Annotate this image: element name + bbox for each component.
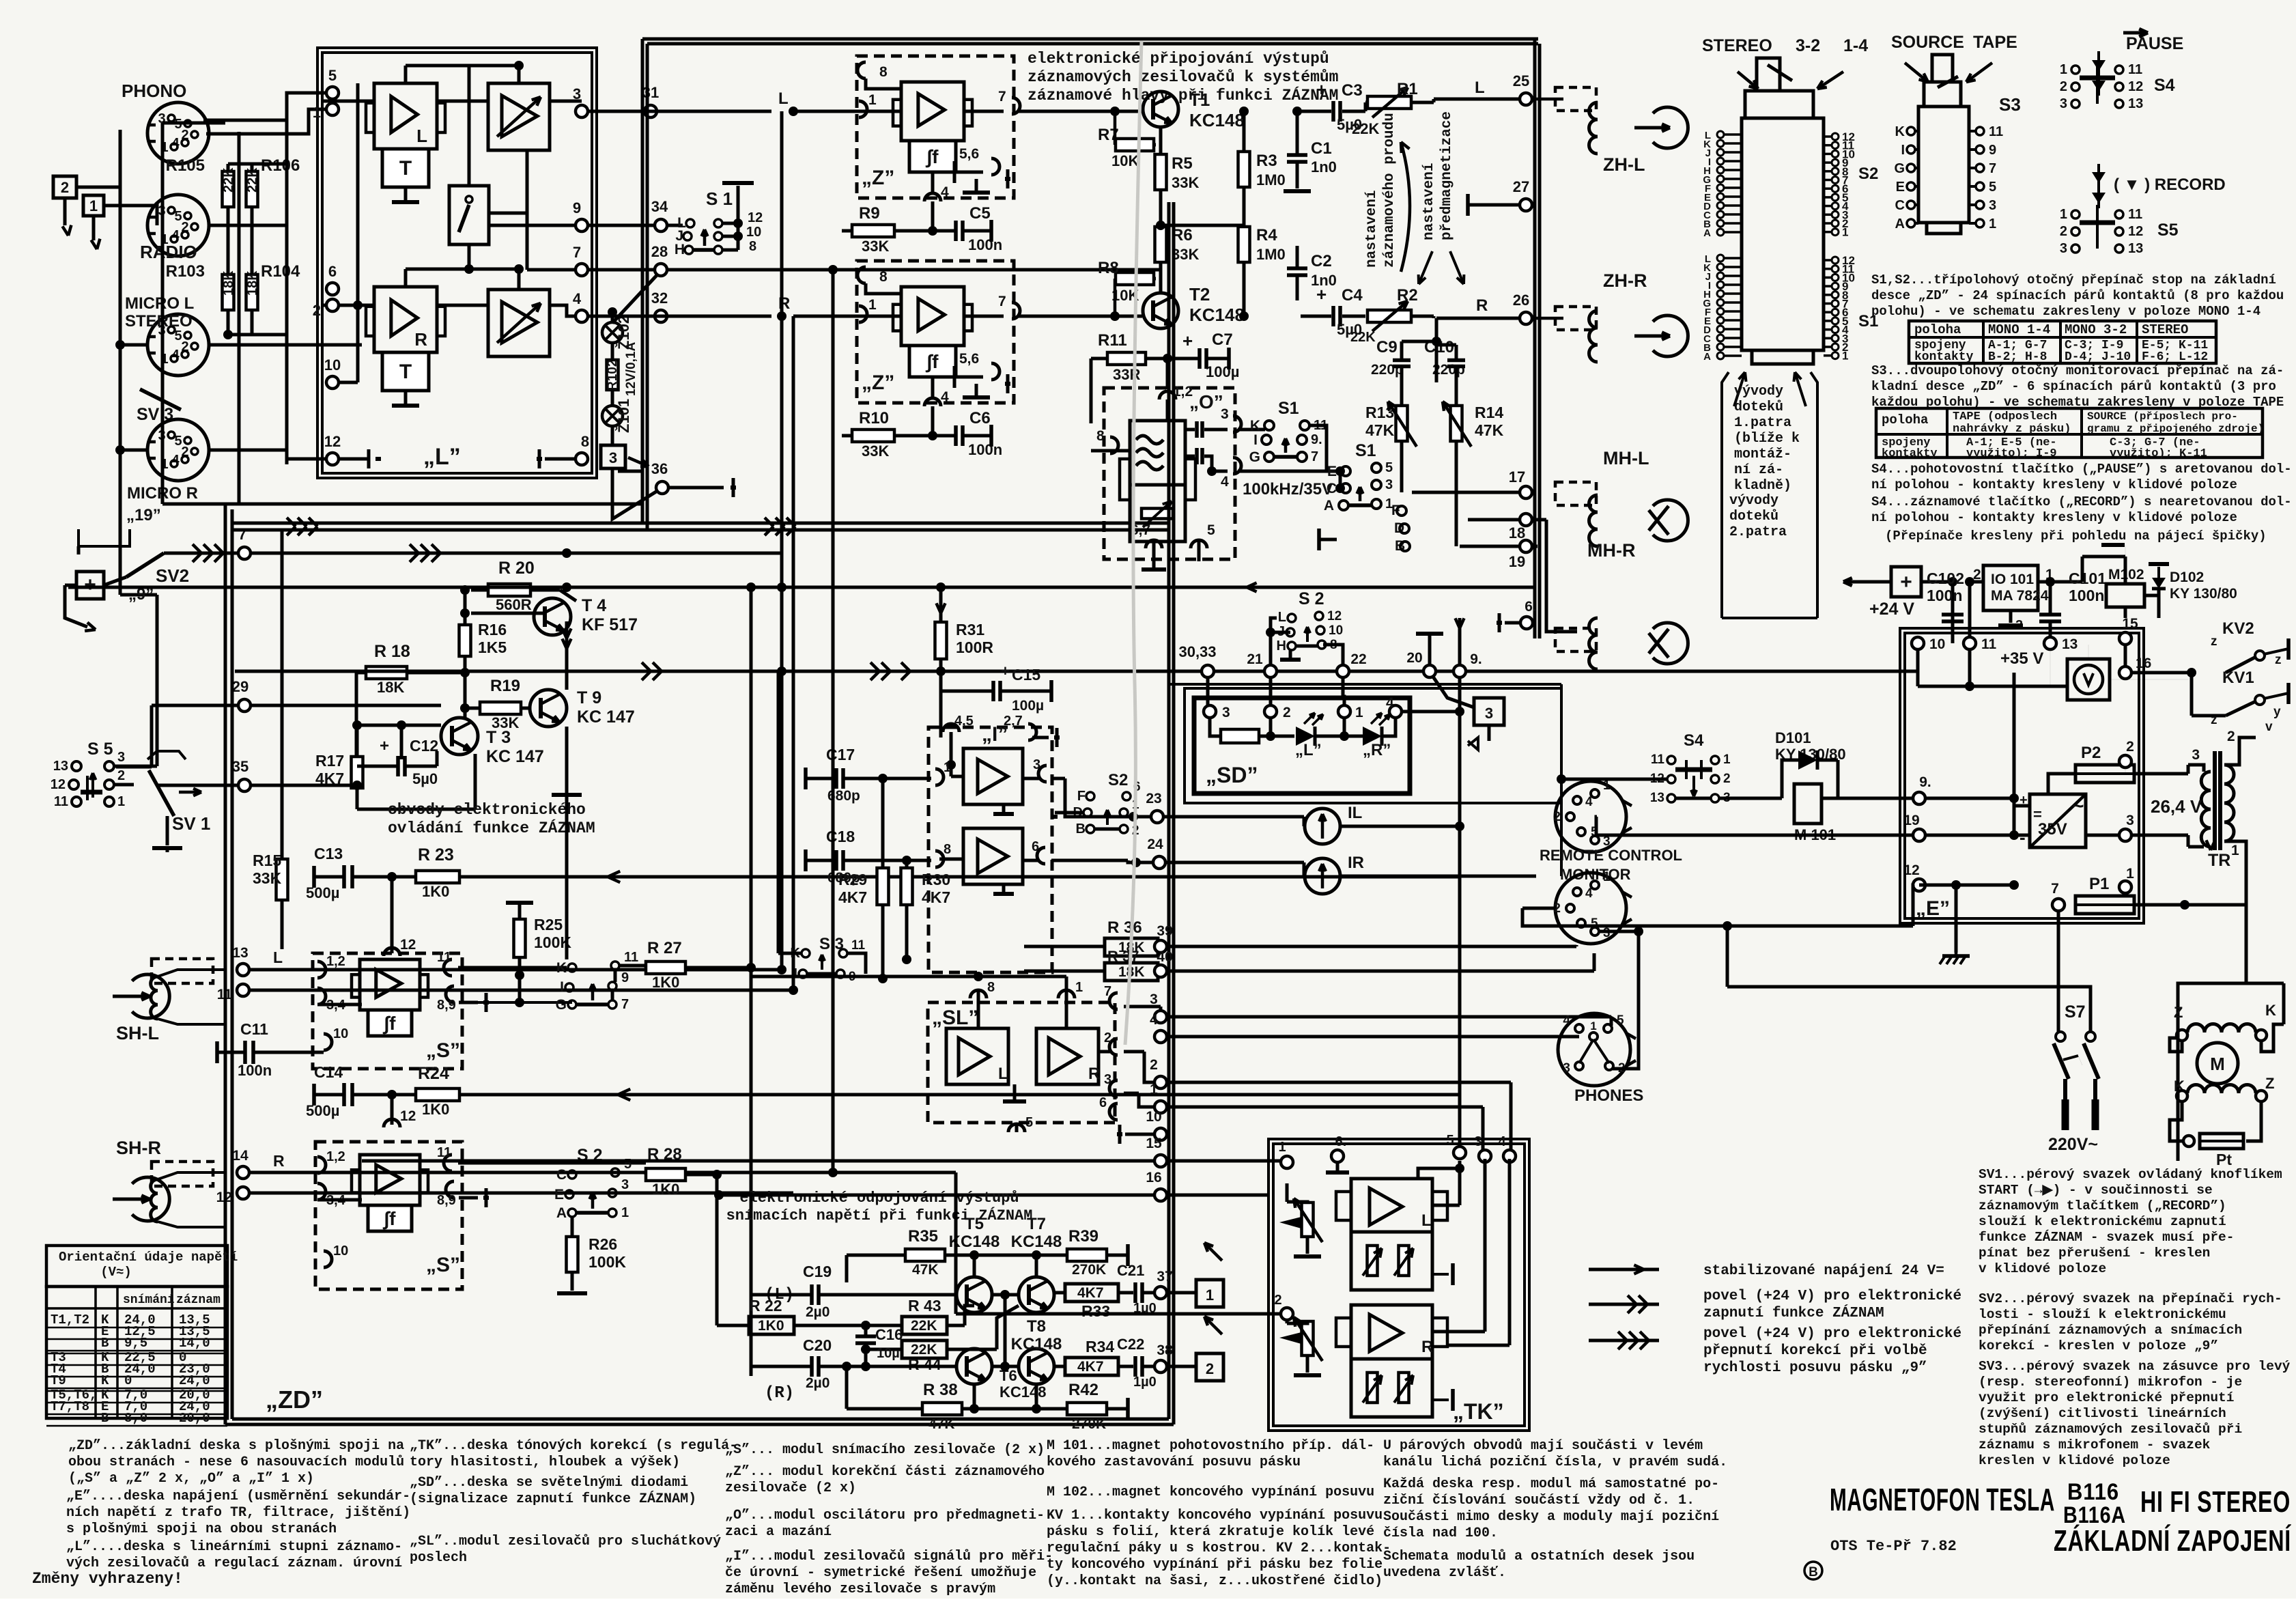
ZD board left edge	[224, 504, 227, 1424]
wire TR primary to S7 area	[2245, 905, 2248, 983]
svg-text:ní polohou - kontakty kresleny: ní polohou - kontakty kresleny v klidové…	[1871, 477, 2237, 492]
svg-text:1: 1	[313, 104, 321, 121]
pad 40	[1154, 965, 1167, 977]
svg-text:(„S” a „Z” 2 x, „O” a „I” 1 x): („S” a „Z” 2 x, „O” a „I” 1 x)	[68, 1471, 314, 1487]
resistor R19 33K	[480, 702, 521, 714]
svg-text:8: 8	[581, 433, 589, 450]
button RECORD S5	[2092, 172, 2106, 183]
svg-text:R 44: R 44	[908, 1355, 941, 1373]
wire R row	[793, 315, 901, 318]
mains plug pins	[2063, 1079, 2067, 1099]
svg-text:R31: R31	[956, 621, 984, 638]
svg-text:3: 3	[1563, 1061, 1570, 1076]
svg-text:vývody: vývody	[1734, 384, 1783, 399]
meter IL	[1305, 809, 1340, 844]
board E outline	[1900, 628, 2144, 923]
svg-text:T 4: T 4	[582, 596, 606, 615]
svg-text:„SL”..modul zesilovačů pro slu: „SL”..modul zesilovačů pro sluchátkový	[410, 1534, 721, 1549]
grounds I	[1002, 813, 1006, 816]
resistor R29 4K7	[877, 868, 889, 905]
svg-text:C20: C20	[803, 1336, 832, 1354]
svg-text:nastavení: nastavení	[1421, 163, 1437, 240]
svg-text:R33: R33	[1081, 1302, 1110, 1320]
svg-text:4: 4	[1386, 695, 1394, 711]
svg-text:ZH-R: ZH-R	[1603, 270, 1647, 291]
svg-text:Změny vyhrazeny!: Změny vyhrazeny!	[32, 1570, 183, 1588]
svg-text:R 22: R 22	[749, 1297, 782, 1315]
svg-text:22K: 22K	[1352, 120, 1379, 137]
svg-text:3: 3	[2192, 747, 2200, 763]
svg-text:R9: R9	[859, 204, 880, 223]
svg-text:1: 1	[1150, 1082, 1158, 1097]
svg-text:12: 12	[400, 1108, 416, 1124]
svg-text:v klidové poloze: v klidové poloze	[1979, 1261, 2106, 1276]
capacitor C14 500u	[342, 1083, 346, 1106]
svg-text:7: 7	[2051, 881, 2059, 897]
svg-text:E: E	[1327, 464, 1337, 479]
svg-text:3: 3	[1385, 477, 1393, 492]
pads S lower	[237, 1166, 249, 1179]
svg-text:R1: R1	[1397, 80, 1418, 98]
svg-text:R103: R103	[166, 262, 205, 281]
pad 9	[576, 219, 588, 231]
vertical x1100	[750, 587, 753, 968]
vertical x2130	[1458, 677, 1462, 1153]
svg-text:31: 31	[642, 84, 659, 101]
svg-text:A: A	[556, 1205, 567, 1221]
TK R tone box	[1351, 1359, 1432, 1417]
pin 4	[1233, 458, 1241, 474]
TK channel R amp	[1351, 1305, 1432, 1359]
svg-text:S1: S1	[1278, 399, 1299, 418]
pad 37	[1154, 1287, 1167, 1299]
svg-text:26: 26	[1513, 292, 1529, 309]
amp SL L	[946, 1028, 1008, 1084]
svg-text:7: 7	[998, 294, 1006, 309]
pad 10	[326, 376, 339, 389]
connector MONITOR	[1555, 873, 1626, 944]
svg-text:záznamovým tlačítkem („RECORD”: záznamovým tlačítkem („RECORD”)	[1979, 1198, 2226, 1213]
clamp 45	[943, 724, 959, 732]
board SD box	[1194, 698, 1410, 793]
svg-text:„SD”...deska se světelnými dio: „SD”...deska se světelnými diodami	[410, 1475, 688, 1491]
table S1S2 positions	[1909, 321, 2216, 363]
svg-text:9.: 9.	[1311, 432, 1322, 447]
svg-text:PHONO: PHONO	[122, 81, 186, 101]
svg-text:D-4; J-10: D-4; J-10	[2065, 350, 2131, 364]
ground Z1	[975, 191, 978, 195]
svg-text:STEREO: STEREO	[2142, 322, 2188, 337]
svg-text:C18: C18	[826, 828, 855, 845]
wire micro wires	[120, 343, 147, 347]
svg-text:4: 4	[1150, 1012, 1158, 1028]
svg-text:MONO 1-4: MONO 1-4	[1988, 322, 2050, 337]
svg-text:11: 11	[437, 950, 451, 965]
capacitor C11 100n	[243, 1041, 247, 1064]
connector PHONO	[147, 102, 209, 164]
meter IR	[1305, 858, 1340, 894]
resistor R26 100K	[567, 1237, 578, 1272]
svg-text:1,2: 1,2	[326, 954, 345, 969]
svg-text:KC148: KC148	[1011, 1233, 1062, 1251]
svg-text:pínat bez přerušení - kreslen: pínat bez přerušení - kreslen	[1979, 1246, 2210, 1261]
module Z upper dashed	[857, 56, 1014, 198]
svg-text:S4: S4	[1684, 731, 1704, 750]
svg-text:povel (+24 V) pro elektronické: povel (+24 V) pro elektronické	[1703, 1326, 1961, 1342]
svg-text:36: 36	[651, 460, 668, 477]
svg-text:MA 7824: MA 7824	[1991, 588, 2049, 604]
module I dashed	[929, 727, 1052, 972]
capacitor C15 100u	[991, 681, 995, 701]
node 1 box	[83, 195, 104, 216]
svg-text:uvedena zvlášť.: uvedena zvlášť.	[1383, 1565, 1506, 1581]
svg-text:4: 4	[1563, 1013, 1570, 1028]
wires inside L	[321, 100, 374, 103]
head ZH-R	[1532, 317, 1563, 320]
svg-text:doteků: doteků	[1729, 509, 1778, 524]
svg-text:C16: C16	[875, 1326, 903, 1343]
svg-text:IO 101: IO 101	[1991, 572, 2034, 587]
svg-text:B: B	[101, 1411, 109, 1426]
wire 7 bus	[164, 552, 242, 555]
svg-text:2: 2	[1274, 1293, 1281, 1308]
svg-text:2: 2	[2227, 729, 2235, 744]
svg-text:KC148: KC148	[1189, 305, 1245, 325]
svg-text:+: +	[84, 574, 96, 596]
svg-text:1: 1	[1842, 350, 1848, 363]
module S lower dashed	[315, 1142, 462, 1289]
svg-text:R15: R15	[253, 852, 281, 869]
svg-text:R: R	[414, 329, 427, 350]
svg-text:3: 3	[1221, 406, 1229, 422]
resistor R8 10K	[1116, 272, 1154, 285]
svg-text:7: 7	[573, 244, 581, 261]
svg-text:47K: 47K	[912, 1262, 939, 1278]
transistor T9 KC147	[530, 690, 567, 727]
clamp 8b	[858, 267, 866, 283]
svg-text:C11: C11	[240, 1020, 268, 1038]
svg-text:B-2; H-8: B-2; H-8	[1988, 350, 2047, 364]
svg-text:100µ: 100µ	[1012, 698, 1044, 714]
svg-text:„Z”... modul korekční části zá: „Z”... modul korekční části záznamového	[725, 1464, 1045, 1480]
svg-text:4K7: 4K7	[1077, 1359, 1104, 1375]
amp SL R	[1036, 1028, 1099, 1084]
svg-text:P2: P2	[2081, 744, 2101, 762]
svg-text:SV2: SV2	[156, 565, 189, 586]
svg-text:500µ: 500µ	[306, 884, 339, 901]
pad 2 right	[2119, 755, 2131, 768]
svg-text:I: I	[560, 979, 564, 995]
svg-text:6: 6	[1099, 1095, 1107, 1110]
pad 7	[576, 264, 588, 276]
svg-text:8: 8	[879, 269, 888, 285]
svg-text:5: 5	[1385, 460, 1393, 475]
svg-text:R 18: R 18	[374, 642, 410, 661]
svg-text:100n: 100n	[968, 236, 1002, 253]
svg-text:využito); K-11: využito); K-11	[2110, 447, 2207, 460]
svg-text:R25: R25	[534, 916, 563, 933]
svg-text:v: v	[2265, 720, 2273, 734]
svg-text:35V: 35V	[2038, 820, 2067, 839]
svg-text:13: 13	[1650, 791, 1664, 805]
resistor R39 270K	[1067, 1249, 1107, 1261]
svg-text:ziční číslování součástí vždy: ziční číslování součástí vždy od č. 1.	[1383, 1493, 1695, 1508]
E internal wires top	[1916, 649, 1920, 686]
op-amp module L upper	[374, 83, 437, 149]
svg-text:100n: 100n	[968, 441, 1002, 458]
svg-text:5: 5	[1617, 1013, 1624, 1028]
svg-text:SV1...pérový svazek ovládaný k: SV1...pérový svazek ovládaný knoflíkem	[1979, 1167, 2282, 1182]
module SL dashed	[928, 1002, 1115, 1123]
pad 2	[326, 299, 339, 311]
svg-text:U párových obvodů mají součást: U párových obvodů mají součásti v levém	[1383, 1438, 1703, 1454]
node 2 box	[1196, 1353, 1223, 1381]
svg-text:8: 8	[944, 842, 951, 857]
svg-text:S 1: S 1	[706, 188, 733, 209]
svg-text:SOURCE: SOURCE	[1891, 33, 1964, 52]
capacitor C20 2u0	[810, 1356, 814, 1377]
svg-text:3: 3	[573, 85, 581, 102]
svg-text:12V/0,1A: 12V/0,1A	[624, 342, 638, 396]
svg-text:38: 38	[1157, 1343, 1173, 1358]
svg-text:TAPE: TAPE	[1973, 33, 2017, 52]
svg-text:+: +	[380, 737, 389, 755]
svg-text:kového zastavování posuvu pásk: kového zastavování posuvu pásku	[1047, 1455, 1301, 1470]
resistor R4 1M0	[1238, 227, 1250, 262]
svg-text:100n: 100n	[1927, 587, 1962, 604]
wire R10x	[227, 164, 230, 171]
svg-text:12: 12	[400, 937, 416, 953]
resistor R3 1M0	[1238, 152, 1250, 187]
svg-text:Součásti mimo desky a moduly m: Součásti mimo desky a moduly mají pozičn…	[1383, 1509, 1719, 1525]
svg-text:předmagnetizace: předmagnetizace	[1439, 111, 1455, 240]
svg-text:T7: T7	[1027, 1215, 1046, 1233]
wires phones	[1610, 1017, 1613, 1026]
svg-text:C4: C4	[1342, 286, 1363, 305]
svg-text:kontakty: kontakty	[1882, 447, 1938, 460]
resistor R104 18K	[246, 275, 258, 310]
pin 4b	[924, 398, 941, 406]
svg-text:23: 23	[1146, 791, 1161, 806]
svg-text:2: 2	[1553, 810, 1561, 824]
head MH-R	[1555, 628, 1596, 651]
svg-text:6: 6	[328, 263, 337, 280]
svg-text:z: z	[2275, 653, 2282, 667]
pin 7	[1012, 98, 1020, 114]
svg-text:5: 5	[1989, 180, 1996, 195]
svg-text:9: 9	[621, 970, 629, 985]
svg-text:přepínání záznamových a snímac: přepínání záznamových a snímacích	[1979, 1323, 2242, 1338]
svg-text:1: 1	[2126, 866, 2134, 882]
svg-text:10: 10	[333, 1243, 348, 1259]
svg-text:∫f: ∫f	[383, 1013, 397, 1035]
vertical x830 arrows	[562, 638, 567, 649]
svg-text:S 2: S 2	[1299, 589, 1324, 608]
svg-text:3: 3	[609, 449, 617, 466]
capacitor C7 100u	[1197, 348, 1202, 369]
pad 3 right side	[2119, 829, 2131, 841]
svg-text:START (→▶) - v součinnosti se: START (→▶) - v součinnosti se	[1979, 1183, 2213, 1198]
svg-text:C6: C6	[969, 409, 991, 427]
svg-text:C101: C101	[2069, 570, 2106, 587]
wire SD 4 to right	[1402, 710, 1460, 714]
svg-text:2: 2	[1206, 1360, 1214, 1377]
svg-text:∫f: ∫f	[383, 1208, 397, 1230]
svg-text:KV2: KV2	[2222, 619, 2254, 638]
svg-text:S2: S2	[1108, 771, 1128, 789]
connector MICRO L STEREO	[147, 314, 209, 376]
capacitor C1 1n0	[1287, 153, 1307, 157]
svg-text:E: E	[1896, 180, 1905, 195]
svg-text:L: L	[1278, 610, 1286, 625]
svg-text:vývody: vývody	[1729, 493, 1778, 509]
svg-text:gramu z připojeného zdroje): gramu z připojeného zdroje)	[2087, 423, 2264, 435]
svg-text:100kHz/35V: 100kHz/35V	[1243, 480, 1333, 498]
svg-text:R30: R30	[922, 871, 950, 888]
module S upper dashed	[313, 953, 462, 1069]
svg-text:40: 40	[1157, 949, 1172, 965]
capacitor C13 500u	[342, 865, 346, 888]
svg-text:záznam: záznam	[176, 1293, 221, 1307]
svg-text:R105: R105	[166, 156, 205, 175]
connector MICRO R	[147, 419, 209, 481]
board TK outline	[1269, 1139, 1529, 1431]
ground SL	[1013, 1100, 1017, 1104]
svg-text:16: 16	[2136, 656, 2151, 671]
svg-text:2µ0: 2µ0	[806, 1375, 830, 1391]
svg-text:Orientační údaje napětí: Orientační údaje napětí	[59, 1250, 238, 1265]
svg-text:„E”....deska napájení (usměrně: „E”....deska napájení (usměrnění sekundá…	[66, 1489, 410, 1504]
resistor R15 33K	[277, 859, 288, 900]
svg-text:3: 3	[117, 750, 125, 765]
fuse P2	[2075, 765, 2134, 783]
switch S2 cluster C lower	[568, 1170, 576, 1179]
svg-text:270K: 270K	[1072, 1416, 1106, 1432]
svg-text:7: 7	[1311, 449, 1318, 464]
svg-text:2: 2	[1150, 1057, 1158, 1073]
svg-text:D101: D101	[1775, 729, 1811, 746]
svg-text:13: 13	[2128, 241, 2143, 256]
switch SV2	[126, 553, 164, 577]
rect to pad19	[1925, 834, 2030, 837]
svg-text:10: 10	[1146, 1109, 1161, 1125]
svg-text:24,0: 24,0	[179, 1373, 210, 1388]
svg-text:1M0: 1M0	[1256, 171, 1286, 188]
svg-text:R: R	[1476, 296, 1488, 315]
ZD bottom edge	[225, 1423, 1174, 1427]
svg-text:elektronické připojování výstu: elektronické připojování výstupů	[1027, 50, 1329, 68]
vertical bus pair x941	[641, 39, 644, 523]
svg-text:4: 4	[1585, 886, 1593, 901]
svg-text:100R: 100R	[956, 638, 993, 656]
pad 1	[326, 103, 339, 115]
svg-text:obou stranách - nese 6 nasouva: obou stranách - nese 6 nasouvacích modul…	[68, 1455, 404, 1470]
svg-text:R104: R104	[261, 262, 300, 281]
svg-text:A: A	[1895, 216, 1905, 231]
TK L pot	[1302, 1203, 1314, 1237]
svg-text:1: 1	[1842, 226, 1848, 239]
svg-text:2: 2	[2060, 79, 2067, 94]
svg-text:15: 15	[2122, 616, 2138, 632]
head MH-L	[1555, 482, 1596, 505]
svg-text:27: 27	[1513, 178, 1529, 195]
svg-text:obvody elektronického: obvody elektronického	[388, 801, 586, 819]
svg-text:39: 39	[1157, 923, 1172, 939]
svg-text:18K: 18K	[377, 679, 404, 696]
resistor R11 33R	[1107, 352, 1146, 365]
svg-text:28: 28	[651, 243, 668, 260]
wire RADIO pin2	[208, 224, 287, 227]
IC IO101 MA7824	[1983, 565, 2038, 610]
table orientacni udaje	[46, 1246, 227, 1287]
table S3 positions	[1876, 408, 2263, 458]
svg-text:K: K	[101, 1373, 109, 1388]
svg-text:C12: C12	[410, 737, 438, 755]
transistor T2 KC148	[1143, 293, 1178, 328]
ZD right edge	[1167, 202, 1171, 1419]
svg-text:T 9: T 9	[577, 688, 601, 707]
junction T5 T7	[992, 1293, 1019, 1297]
svg-text:1.patra: 1.patra	[1734, 415, 1791, 431]
svg-text:R11: R11	[1098, 331, 1127, 350]
svg-text:1: 1	[1075, 980, 1083, 995]
svg-text:S5: S5	[2157, 221, 2179, 240]
svg-text:STEREO: STEREO	[1702, 36, 1772, 55]
svg-text:270K: 270K	[1072, 1262, 1106, 1278]
svg-text:2: 2	[61, 179, 69, 196]
svg-text:„S”... modul snímacího zesilov: „S”... modul snímacího zesilovače (2 x)	[725, 1442, 1045, 1458]
node 2 box	[53, 176, 76, 198]
svg-text:1: 1	[868, 297, 877, 313]
svg-text:S4...pohotovostní tlačítko („P: S4...pohotovostní tlačítko („PAUSE”) s a…	[1871, 462, 2292, 477]
svg-text:využito); I-9: využito); I-9	[1966, 447, 2057, 460]
svg-text:„TK”: „TK”	[1453, 1399, 1504, 1424]
transistor T5	[956, 1277, 992, 1312]
svg-text:13: 13	[53, 759, 68, 774]
pad 8	[576, 453, 588, 465]
svg-text:C14: C14	[314, 1063, 343, 1081]
svg-text:1n0: 1n0	[1311, 158, 1337, 175]
svg-text:S1: S1	[1355, 441, 1376, 460]
svg-text:doteků: doteků	[1734, 399, 1783, 415]
svg-text:pásku s folií, která zkratuje: pásku s folií, která zkratuje kolík levé	[1047, 1524, 1374, 1540]
svg-text:„L”....deska s lineárními stup: „L”....deska s lineárními stupni záznamo…	[66, 1539, 402, 1555]
caps osc	[1195, 421, 1199, 438]
wires S upper	[249, 968, 782, 972]
pads S upper	[237, 964, 249, 976]
svg-text:4K7: 4K7	[838, 888, 867, 906]
svg-text:R 27: R 27	[647, 939, 682, 957]
svg-text:T: T	[399, 361, 412, 383]
clamp 3	[1038, 765, 1047, 782]
svg-text:I: I	[793, 966, 797, 981]
svg-text:y: y	[2273, 705, 2281, 719]
svg-text:MH-L: MH-L	[1603, 448, 1649, 468]
svg-text:5: 5	[328, 67, 337, 84]
box right-mid outline	[1170, 683, 1561, 686]
lamp Z101	[602, 406, 623, 426]
transformer TR	[2213, 751, 2217, 850]
svg-text:REMOTE CONTROL: REMOTE CONTROL	[1540, 847, 1682, 864]
svg-text:čísla nad 100.: čísla nad 100.	[1383, 1526, 1498, 1541]
svg-text:1: 1	[2231, 843, 2239, 858]
svg-text:„19”: „19”	[126, 506, 161, 524]
resistor R43 22K boxed	[902, 1317, 947, 1334]
resistor R33 4K7 boxed	[1065, 1284, 1118, 1302]
svg-text:22: 22	[1350, 651, 1366, 667]
svg-text:7: 7	[1104, 984, 1111, 999]
svg-text:MICRO L: MICRO L	[125, 294, 194, 313]
